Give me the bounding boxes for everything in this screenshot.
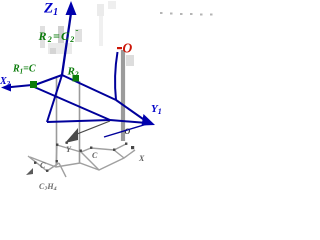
dotted trace row top-right <box>160 12 213 16</box>
shadow atom dots <box>34 142 134 172</box>
svg-text:X: X <box>138 154 145 163</box>
dark shadow arrowhead <box>65 128 78 143</box>
Y axis tail <box>104 124 147 137</box>
green atom squares <box>30 81 37 88</box>
Z shaft <box>62 13 71 75</box>
svg-text:C: C <box>40 161 46 170</box>
shadow small gray labels <box>40 127 145 170</box>
svg-text:O: O <box>123 41 133 56</box>
labels <box>0 1 162 117</box>
bond A-VO <box>62 75 116 100</box>
red O <box>117 47 122 49</box>
bond B-C* <box>32 86 110 120</box>
Y arrowhead <box>142 114 156 126</box>
bond A-B <box>32 75 62 86</box>
bond A-C' <box>47 75 62 122</box>
bond VO-E <box>116 100 148 123</box>
X axis <box>6 85 32 88</box>
svg-text:C: C <box>92 151 98 160</box>
left edge gray marks (shadow X arrow) <box>26 168 33 175</box>
bond C'-C* <box>47 120 110 122</box>
X arrowhead <box>1 84 11 92</box>
C-O bond <box>115 52 117 100</box>
Z arrowhead <box>66 1 77 15</box>
svg-text:O: O <box>125 127 131 136</box>
svg-text:R1=C: R1=C <box>12 64 36 76</box>
bond C*-E <box>110 120 147 123</box>
